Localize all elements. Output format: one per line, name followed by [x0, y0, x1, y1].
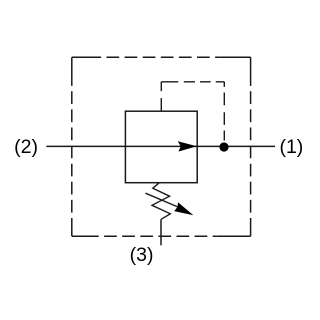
wire: enclosure bottom edge [72, 235, 251, 237]
wire: enclosure left edge [71, 57, 73, 236]
node junction dot [219, 142, 228, 151]
wire: main flow line port 2 to port 1 [46, 145, 275, 147]
wire: pilot vertical down to node [223, 82, 225, 141]
svg-text:(3): (3) [130, 244, 154, 266]
flow direction arrowhead [178, 141, 197, 151]
spring [152, 183, 170, 220]
svg-text:(2): (2) [14, 136, 38, 158]
wire: enclosure top edge [72, 56, 251, 58]
wire: pilot horizontal top [161, 81, 224, 83]
wire: enclosure right edge [250, 57, 252, 236]
spring adjustment arrow shaft [146, 193, 179, 207]
wire: pilot vertical from valve top [160, 82, 162, 111]
valve body square [125, 111, 197, 183]
wire: port 3 line [160, 219, 162, 245]
spring adjustment arrowhead [174, 202, 193, 215]
enclosure dashed boundary box [72, 57, 251, 236]
pilot line dashed [161, 82, 224, 141]
svg-text:(1): (1) [279, 136, 303, 158]
